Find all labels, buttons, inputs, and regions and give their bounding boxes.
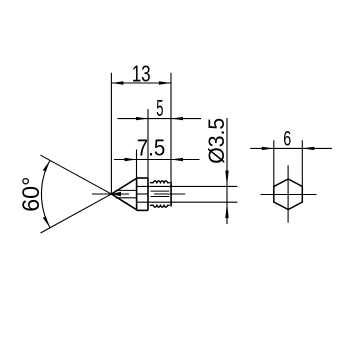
extension line left of 13 (to cone tip) bbox=[110, 73, 112, 194]
svg-text:5: 5 bbox=[156, 95, 163, 121]
svg-text:Ø3.5: Ø3.5 bbox=[204, 118, 229, 164]
hex section right edge bbox=[147, 178, 149, 210]
centerline left of tip bbox=[92, 193, 111, 195]
dimension 7.5 line bbox=[114, 158, 200, 161]
svg-text:13: 13 bbox=[132, 60, 151, 86]
hexagon end view bbox=[274, 179, 303, 210]
hex section bottom bbox=[137, 209, 148, 211]
svg-text:60°: 60° bbox=[18, 177, 45, 212]
angle 60 construction line upper bbox=[41, 155, 117, 197]
thread end face bbox=[170, 182, 172, 207]
arrow at cone tip bbox=[111, 192, 121, 197]
extension lines of D3.5 bore bbox=[138, 185, 238, 187]
svg-text:7.5: 7.5 bbox=[137, 135, 166, 161]
hexagon vertical centerline bbox=[287, 165, 289, 222]
extension line left of 6 bbox=[273, 140, 275, 186]
angle 60 arc arrows bbox=[43, 160, 50, 171]
dimension 6 line bbox=[250, 147, 332, 150]
centerline dashes bbox=[138, 193, 148, 195]
small bore lower line bbox=[116, 197, 137, 199]
small bore upper line bbox=[116, 189, 137, 191]
thread crest top wave bbox=[150, 181, 170, 183]
thread crest bottom wave bbox=[150, 205, 170, 207]
extension line right common (13/5/7.5) bbox=[170, 73, 172, 182]
cone lower edge bbox=[111, 194, 137, 210]
extension line left of 5 (thread start) bbox=[147, 109, 149, 178]
cone upper edge bbox=[111, 178, 137, 194]
angle 60 arc bbox=[41, 160, 50, 227]
hex section left edge bbox=[136, 178, 138, 210]
dimension 13 line bbox=[111, 81, 170, 84]
dimension 5 line bbox=[118, 117, 202, 120]
extension line left of 7.5 (hex start) bbox=[136, 150, 138, 179]
svg-text:6: 6 bbox=[283, 127, 291, 151]
angle 60 construction line lower bbox=[41, 191, 117, 233]
hexagon horizontal centerline bbox=[261, 194, 317, 196]
hex section top bbox=[137, 177, 148, 179]
dimension D3.5 vertical line bbox=[225, 118, 228, 224]
part outline bbox=[111, 178, 171, 210]
extension line right of 6 bbox=[301, 140, 303, 186]
